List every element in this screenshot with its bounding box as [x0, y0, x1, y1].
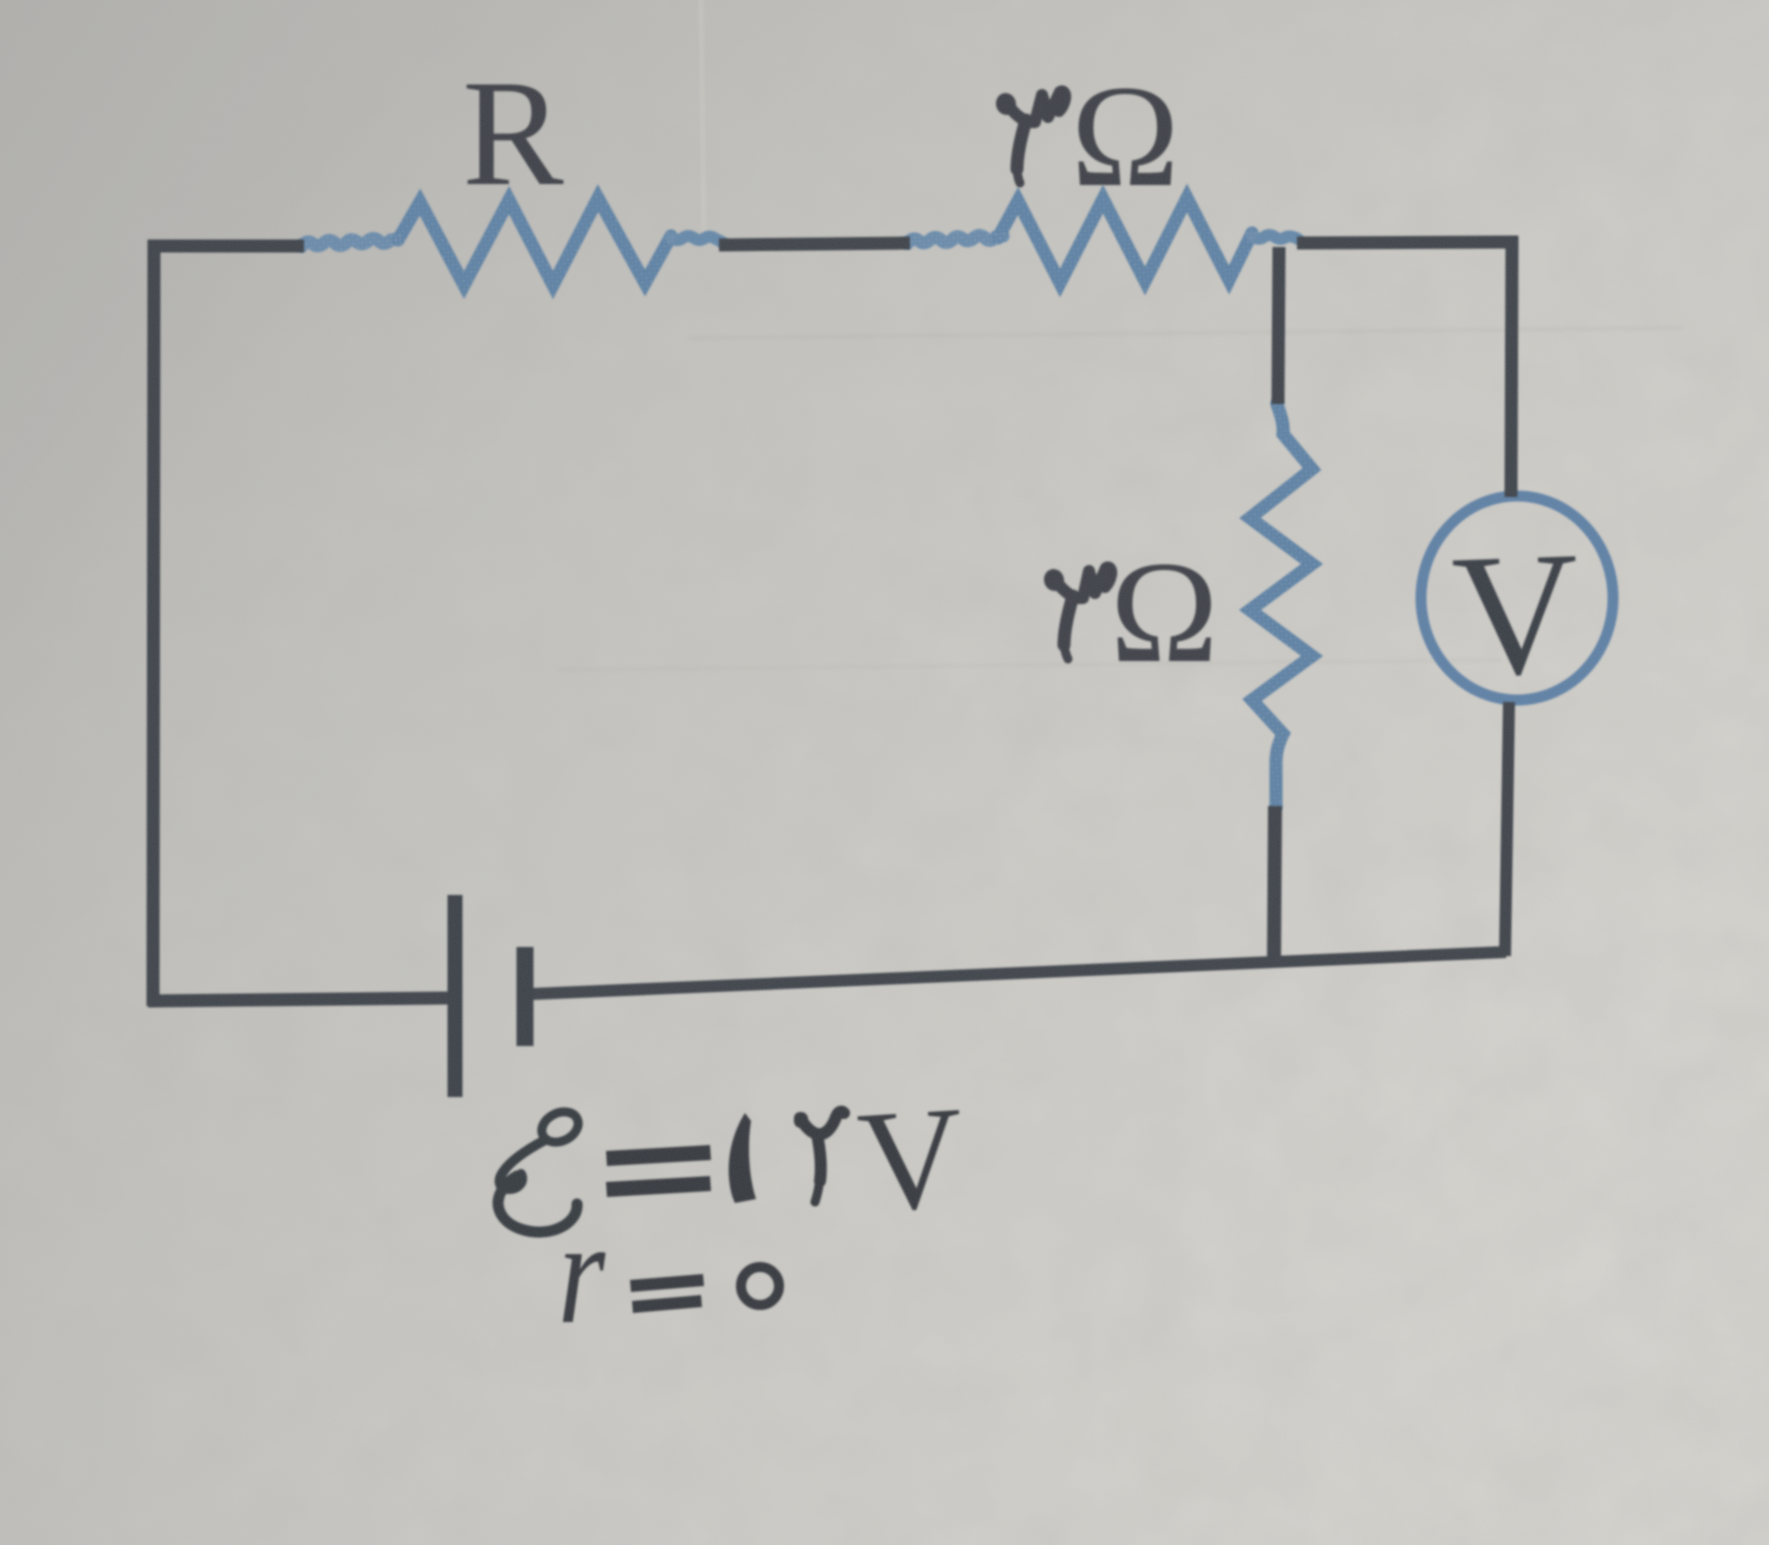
label persian digit one of 12V — [729, 1113, 756, 1203]
battery B1 long plate (positive) — [448, 895, 463, 1097]
wire top-left segment — [148, 240, 304, 253]
resistor R2 3ohm (blue zigzag, top-right) — [908, 198, 1298, 283]
label script-E (EMF symbol) — [498, 1106, 583, 1232]
wire middle branch bottom stub (junction with bottom wire) — [1274, 806, 1275, 963]
paper crease marks — [560, 0, 1680, 670]
wire right side upper (to voltmeter) — [1511, 236, 1512, 497]
wire below voltmeter — [1505, 702, 1509, 956]
wire bottom from battery to bottom-right corner — [532, 952, 1506, 994]
wire top-right segment — [1297, 242, 1518, 243]
wire left side — [153, 240, 154, 1006]
wire middle branch top stub — [1278, 247, 1279, 404]
label persian digit three of middle 3-ohm — [1041, 567, 1111, 659]
label equals sign of r value — [630, 1274, 704, 1313]
battery B1 short plate (negative) — [517, 947, 534, 1046]
label persian digit two of 12V — [792, 1110, 844, 1202]
wire top middle segment — [719, 243, 910, 245]
label equals sign of EMF value — [606, 1145, 711, 1197]
resistor R3 3ohm (blue zigzag, vertical middle branch) — [1250, 404, 1312, 806]
label persian digit three of top 3-ohm — [993, 91, 1065, 183]
label persian zero (ring) of r value — [741, 1267, 779, 1305]
resistor R (blue zigzag, top-left) — [302, 198, 722, 285]
wire bottom-left to battery — [148, 998, 448, 1001]
voltmeter U1 ring (blue stippled circle) — [1421, 496, 1613, 700]
